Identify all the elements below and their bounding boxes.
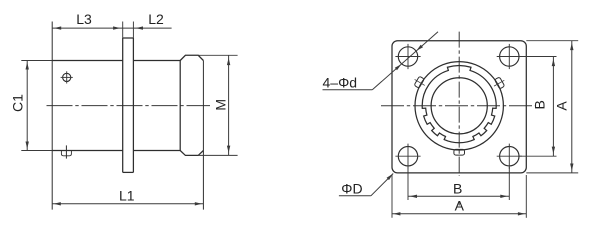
- svg-text:L2: L2: [148, 11, 164, 27]
- svg-text:L3: L3: [76, 11, 92, 27]
- svg-text:B: B: [453, 180, 462, 196]
- svg-text:L1: L1: [119, 188, 135, 204]
- svg-text:4–Φd: 4–Φd: [323, 74, 358, 90]
- svg-text:C1: C1: [9, 94, 25, 112]
- svg-text:A: A: [455, 198, 465, 214]
- svg-text:M: M: [212, 99, 228, 111]
- svg-text:ΦD: ΦD: [341, 181, 362, 197]
- svg-text:A: A: [553, 101, 569, 111]
- svg-text:B: B: [532, 100, 548, 109]
